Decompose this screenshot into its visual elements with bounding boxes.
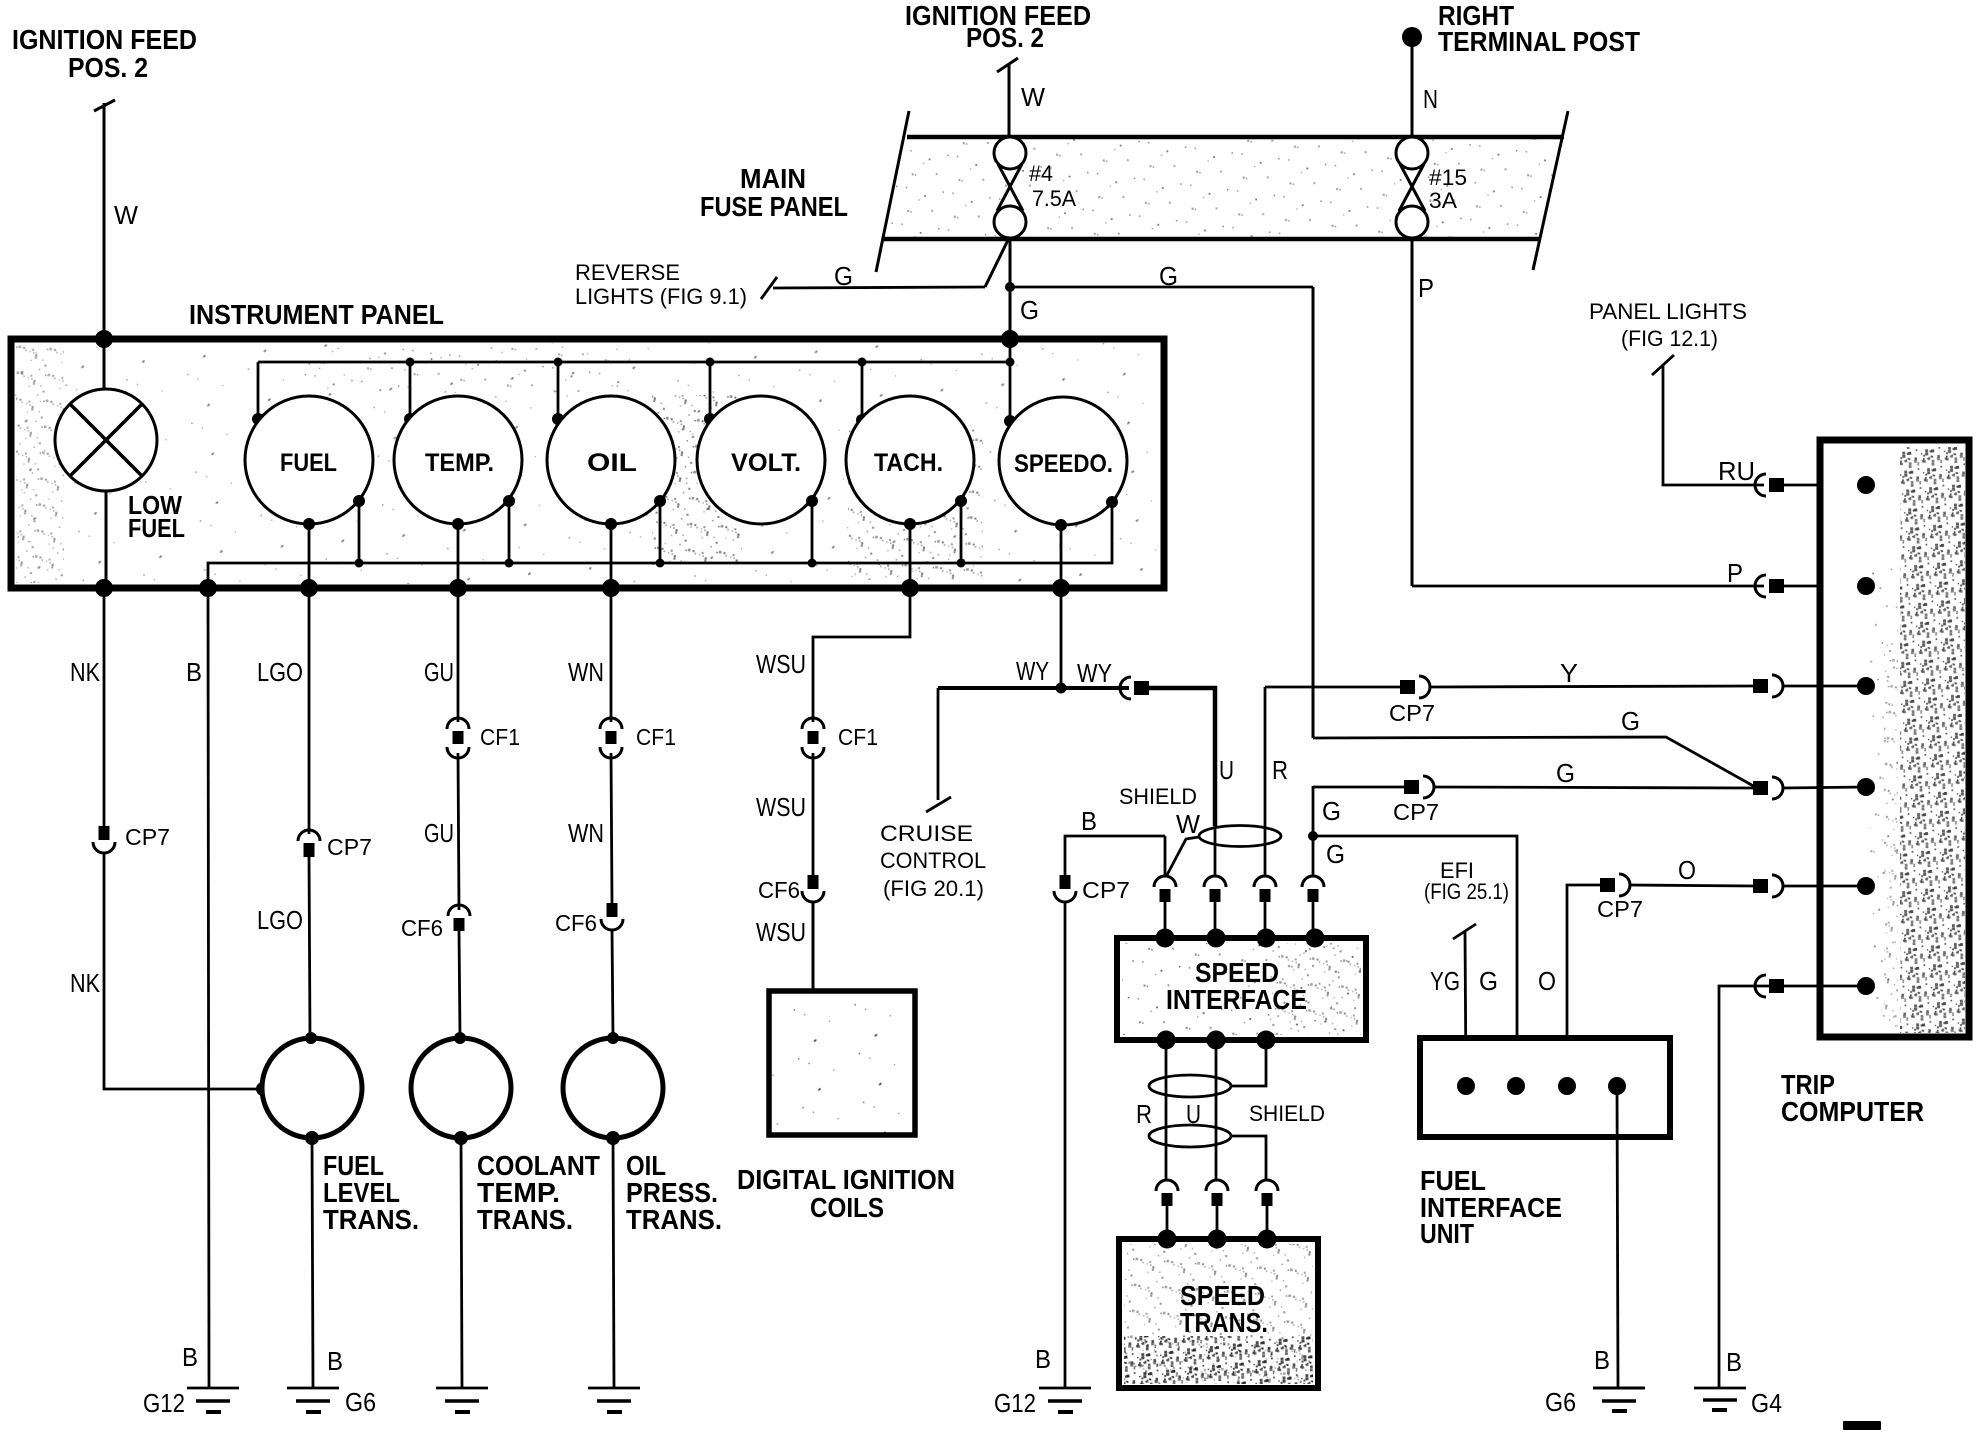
connector G (trip computer) xyxy=(1753,777,1783,799)
svg-text:(FIG 12.1): (FIG 12.1) xyxy=(1621,326,1718,351)
wire inner ground bus xyxy=(208,502,1112,588)
svg-text:TRANS.: TRANS. xyxy=(626,1204,722,1235)
label REVERSE LIGHTS (FIG 9.1) xyxy=(575,260,747,309)
fuse #15 3A xyxy=(1396,137,1467,238)
svg-text:WN: WN xyxy=(568,657,604,687)
main fuse panel band xyxy=(876,111,1568,272)
ground G12 (middle) xyxy=(994,1388,1091,1418)
shield ellipse (middle) xyxy=(1149,1075,1231,1097)
svg-text:3A: 3A xyxy=(1429,188,1457,213)
svg-text:VOLT.: VOLT. xyxy=(731,449,801,477)
wire NK (to fuel level trans) xyxy=(104,853,262,1089)
instrument panel box xyxy=(11,339,1164,588)
wire B drop to pin 1 xyxy=(1164,836,1167,876)
svg-text:CRUISE: CRUISE xyxy=(880,821,973,846)
svg-text:LIGHTS (FIG 9.1): LIGHTS (FIG 9.1) xyxy=(575,284,747,309)
svg-text:FUSE PANEL: FUSE PANEL xyxy=(700,191,848,222)
svg-text:FUEL: FUEL xyxy=(280,449,337,477)
label FUEL LEVEL TRANS. xyxy=(323,1150,419,1235)
svg-text:POS. 2: POS. 2 xyxy=(966,22,1044,53)
svg-text:WSU: WSU xyxy=(756,649,806,679)
connector CP7 on LGO xyxy=(298,830,320,857)
wire G (second segment) xyxy=(1313,786,1404,789)
wire (cruise control branch) xyxy=(937,688,940,800)
svg-text:YG: YG xyxy=(1430,966,1460,996)
svg-text:TACH.: TACH. xyxy=(874,449,943,477)
connector Y (trip computer) xyxy=(1753,675,1783,697)
wire W shield slant xyxy=(1167,837,1199,875)
wire G riser down xyxy=(1312,287,1315,738)
label SPEED TRANS. xyxy=(1180,1280,1268,1338)
terminal post dot xyxy=(1402,27,1422,47)
fuel interface unit box xyxy=(1420,1038,1670,1137)
label TRIP COMPUTER xyxy=(1781,1069,1924,1127)
wire YG (EFI to fuel interface unit) xyxy=(1465,931,1466,1086)
svg-text:#15: #15 xyxy=(1429,165,1467,190)
wire B (panel to ground G12) xyxy=(208,588,209,1387)
svg-text:B: B xyxy=(327,1346,343,1376)
wire U (speed interface to speed trans) xyxy=(1215,1040,1218,1180)
svg-text:W: W xyxy=(1176,809,1200,839)
fuse #4 7.5A xyxy=(994,137,1076,238)
wire shield (pin3 to ellipse) xyxy=(1231,1040,1266,1086)
connector CP7 (on G wire) xyxy=(1404,776,1434,798)
registration dash (bottom right) xyxy=(1843,1421,1881,1430)
connector pin 3 xyxy=(1254,876,1276,938)
wire U (thick, to speed interface) xyxy=(1149,688,1215,826)
speed interface top pins xyxy=(1156,929,1175,948)
svg-text:U: U xyxy=(1219,755,1234,785)
svg-text:N: N xyxy=(1423,84,1438,114)
svg-text:IGNITION FEED: IGNITION FEED xyxy=(12,24,197,55)
wire R/Y horizontal to CP7 xyxy=(1265,686,1400,689)
svg-text:B: B xyxy=(182,1342,198,1372)
wire O (fuel interface to CP7 to trip computer) xyxy=(1567,885,1600,1086)
svg-text:P: P xyxy=(1418,273,1434,303)
gauge TEMP. xyxy=(394,396,522,524)
node WY junction xyxy=(1056,683,1067,694)
wire O (to trip connector) xyxy=(1630,885,1753,886)
svg-text:7.5A: 7.5A xyxy=(1032,186,1076,211)
nodes on panel bottom edge xyxy=(95,579,113,597)
wire RU xyxy=(1663,364,1764,485)
ground G6 (right) xyxy=(1545,1387,1645,1417)
wire R (speed interface to speed trans) xyxy=(1165,1040,1168,1180)
gauge OIL xyxy=(547,396,675,524)
label PANEL LIGHTS (FIG 12.1) xyxy=(1589,299,1747,375)
gauge TACH. xyxy=(846,396,974,524)
svg-text:G6: G6 xyxy=(1545,1387,1576,1417)
svg-text:RU: RU xyxy=(1718,456,1755,486)
wire B (down to ground) xyxy=(1064,902,1067,1387)
svg-text:G: G xyxy=(1621,706,1640,736)
connector CF6 on WN xyxy=(601,903,623,930)
connector WY xyxy=(1120,677,1149,699)
svg-text:OIL: OIL xyxy=(587,449,637,477)
wire shield (ellipse to pin connector) xyxy=(1231,1136,1266,1180)
connector RU (trip computer) xyxy=(1755,474,1784,496)
svg-text:COMPUTER: COMPUTER xyxy=(1781,1096,1924,1127)
nodes on ground bus xyxy=(355,559,364,568)
shield ellipse (upper) xyxy=(1199,826,1281,847)
digital ignition coils box xyxy=(769,991,915,1135)
svg-text:G12: G12 xyxy=(143,1388,185,1418)
connector (speed trans pin 3) xyxy=(1256,1180,1278,1239)
wire WN (to oil press trans) xyxy=(612,930,613,1038)
node W on panel top xyxy=(95,330,113,348)
connector pin 4 xyxy=(1302,876,1324,938)
wire (oil press trans to ground) xyxy=(613,1138,614,1387)
svg-text:TERMINAL POST: TERMINAL POST xyxy=(1438,26,1640,57)
svg-text:(FIG 25.1): (FIG 25.1) xyxy=(1424,879,1509,904)
label DIGITAL IGNITION COILS xyxy=(737,1164,955,1223)
connector O (trip computer) xyxy=(1753,875,1783,897)
svg-text:G: G xyxy=(1326,839,1345,869)
svg-text:SHIELD: SHIELD xyxy=(1119,784,1197,809)
connector (speed trans pin 2) xyxy=(1206,1180,1228,1239)
connector CP7 (on Y wire) xyxy=(1400,676,1430,698)
label IGNITION FEED POS. 2 (top left) xyxy=(12,24,197,111)
svg-text:WSU: WSU xyxy=(756,917,806,947)
wire WSU (tach to coils) xyxy=(813,588,910,722)
svg-text:CF1: CF1 xyxy=(480,724,520,750)
label LOW FUEL xyxy=(128,490,185,543)
bottom-pin nodes on circles xyxy=(303,518,315,530)
nodes on top bus xyxy=(406,358,415,367)
wire LGO (to fuel level trans) xyxy=(309,857,310,1038)
svg-text:B: B xyxy=(1726,1347,1742,1377)
wire WSU middle xyxy=(812,753,815,875)
wire G (corner down to junction) xyxy=(1312,786,1315,876)
svg-text:WY: WY xyxy=(1077,658,1112,688)
svg-text:CF6: CF6 xyxy=(555,910,597,936)
ground (coolant temp) xyxy=(436,1388,488,1412)
node G junction xyxy=(1005,282,1015,292)
node G junction xyxy=(1308,831,1318,841)
svg-text:B: B xyxy=(1594,1345,1610,1375)
svg-text:TEMP.: TEMP. xyxy=(425,449,494,477)
wire G (reverse lights branch slant) xyxy=(985,240,1008,287)
label FUEL INTERFACE UNIT xyxy=(1420,1165,1562,1249)
connector CF1 on WN xyxy=(600,718,622,758)
svg-text:R: R xyxy=(1136,1099,1152,1129)
node fuel level trans left pin xyxy=(256,1082,270,1096)
ground G4 xyxy=(1694,1388,1782,1418)
connector CP7 on B xyxy=(1054,875,1076,902)
ground (oil press) xyxy=(588,1388,640,1412)
svg-text:SPEEDO.: SPEEDO. xyxy=(1014,450,1113,478)
connector CP7 on NK xyxy=(93,826,115,853)
wire GU xyxy=(457,588,460,722)
svg-text:CP7: CP7 xyxy=(125,824,170,850)
label SPEED INTERFACE xyxy=(1166,957,1307,1015)
wire N (terminal post to fuse #15) xyxy=(1411,45,1414,139)
gauge pin nodes (upper-left) xyxy=(252,413,264,425)
label IGNITION FEED POS. 2 (top middle) xyxy=(905,0,1091,72)
svg-text:B: B xyxy=(1081,806,1097,836)
fuel level transducer xyxy=(262,1038,362,1138)
label EFI (FIG 25.1) xyxy=(1424,858,1509,939)
svg-text:G4: G4 xyxy=(1751,1388,1782,1418)
svg-text:CP7: CP7 xyxy=(1082,877,1130,903)
wire B (fuel level trans to ground G6) xyxy=(312,1138,313,1387)
svg-text:CF6: CF6 xyxy=(401,915,443,941)
svg-text:CP7: CP7 xyxy=(327,834,372,860)
speed trans top pins xyxy=(1158,1230,1177,1249)
svg-text:PANEL LIGHTS: PANEL LIGHTS xyxy=(1589,299,1747,324)
label OIL PRESS. TRANS. xyxy=(626,1150,722,1235)
speed interface bottom pins xyxy=(1157,1031,1176,1050)
svg-text:UNIT: UNIT xyxy=(1420,1218,1474,1249)
ground G12 (left) xyxy=(143,1388,239,1418)
svg-text:W: W xyxy=(1021,82,1045,112)
wire WN middle xyxy=(611,753,612,903)
svg-text:(FIG 20.1): (FIG 20.1) xyxy=(883,876,984,901)
connector CP7 (on O wire) xyxy=(1600,874,1630,896)
ground G6 (left) xyxy=(287,1387,376,1417)
svg-text:B: B xyxy=(186,657,202,687)
svg-text:CP7: CP7 xyxy=(1389,700,1435,726)
trip computer pins xyxy=(1857,476,1875,995)
wire GU middle xyxy=(458,753,459,910)
wire WY (speedo down) xyxy=(1060,588,1063,688)
svg-text:WSU: WSU xyxy=(756,792,806,822)
connector pin 1 (speed interface) xyxy=(1154,876,1176,938)
connector P (trip computer) xyxy=(1755,575,1784,597)
connector pin 2 xyxy=(1204,876,1226,938)
wire NK xyxy=(103,588,106,826)
wire top bus inside panel xyxy=(258,339,1010,362)
oil press transducer xyxy=(563,1038,663,1138)
shield ellipse (lower) xyxy=(1149,1125,1231,1147)
wire G (branch to fuel interface unit) xyxy=(1313,836,1517,1086)
svg-text:WN: WN xyxy=(568,818,604,848)
wire WN xyxy=(610,588,613,722)
svg-text:TRANS.: TRANS. xyxy=(323,1204,419,1235)
gauge SPEEDO. xyxy=(999,397,1127,525)
wire G (riser corner to trip computer) xyxy=(1313,737,1757,788)
node G on panel top xyxy=(1001,330,1019,348)
svg-text:FUEL: FUEL xyxy=(128,513,185,543)
svg-text:CP7: CP7 xyxy=(1597,896,1643,922)
svg-text:O: O xyxy=(1538,966,1556,996)
wire WY horizontal xyxy=(938,686,1129,690)
svg-text:CF1: CF1 xyxy=(838,724,878,750)
gauge VOLT. xyxy=(697,396,825,524)
wire B (to CP7 and ground G12) xyxy=(1065,836,1165,875)
svg-text:COILS: COILS xyxy=(810,1192,884,1223)
wire P (fuse #15 down) xyxy=(1411,239,1414,586)
svg-text:W: W xyxy=(114,200,138,230)
svg-text:WY: WY xyxy=(1016,656,1049,686)
svg-text:GU: GU xyxy=(424,818,454,848)
wire W (ignition feed pos.2 to instrument panel) xyxy=(103,103,106,339)
wire gauge right-pin drops xyxy=(358,501,361,563)
label COOLANT TEMP. TRANS. xyxy=(477,1150,600,1235)
wire WSU (to coils box) xyxy=(812,902,815,990)
svg-text:#4: #4 xyxy=(1029,161,1053,186)
speed interface box xyxy=(1117,938,1366,1040)
wire (coolant temp trans to ground) xyxy=(461,1138,462,1387)
svg-text:G6: G6 xyxy=(345,1387,376,1417)
wire B (ground G4 to trip computer) xyxy=(1719,986,1866,1387)
wire G (junction to right riser) xyxy=(1010,286,1313,289)
svg-text:P: P xyxy=(1727,558,1743,588)
svg-text:LGO: LGO xyxy=(257,905,303,935)
wire P (horizontal to trip computer) xyxy=(1412,585,1764,588)
label RIGHT TERMINAL POST xyxy=(1438,0,1640,57)
connector CF1 on GU xyxy=(447,718,469,758)
svg-text:INSTRUMENT PANEL: INSTRUMENT PANEL xyxy=(189,299,444,330)
svg-text:MAIN: MAIN xyxy=(740,163,806,194)
svg-text:G: G xyxy=(1322,796,1341,826)
wire GU (to coolant temp trans) xyxy=(459,931,460,1038)
wire W (to fuse #4) xyxy=(1008,64,1011,139)
svg-text:NK: NK xyxy=(70,657,101,687)
fuel interface unit pins xyxy=(1457,1077,1475,1095)
svg-text:NK: NK xyxy=(70,968,101,998)
wire B (fuel interface to ground G6) xyxy=(1617,1086,1618,1387)
label MAIN FUSE PANEL xyxy=(700,163,848,222)
svg-text:G: G xyxy=(1159,261,1178,291)
wire G (fuse #4 to instrument panel) xyxy=(1009,238,1012,339)
svg-text:Y: Y xyxy=(1560,658,1578,688)
svg-text:G12: G12 xyxy=(994,1388,1036,1418)
connector CF1 on WSU xyxy=(802,718,824,758)
speed trans box xyxy=(1119,1239,1318,1388)
coolant temp transducer xyxy=(411,1038,511,1138)
svg-text:G: G xyxy=(1479,966,1498,996)
wire R (vertical) xyxy=(1264,687,1267,876)
connector CF6 on GU xyxy=(448,905,470,931)
wire LGO xyxy=(308,588,311,834)
svg-text:DIGITAL IGNITION: DIGITAL IGNITION xyxy=(737,1164,955,1195)
svg-text:G: G xyxy=(1020,295,1039,325)
svg-text:INTERFACE: INTERFACE xyxy=(1166,984,1307,1015)
gauge FUEL xyxy=(245,396,373,524)
trip computer box xyxy=(1820,440,1969,1037)
svg-text:TRANS.: TRANS. xyxy=(477,1204,573,1235)
wire G (CP7 to trip computer) xyxy=(1434,787,1753,788)
svg-text:SHIELD: SHIELD xyxy=(1249,1101,1325,1126)
svg-text:G: G xyxy=(1556,758,1575,788)
svg-text:CP7: CP7 xyxy=(1393,799,1439,825)
wire (reverse lights horizontal) xyxy=(773,287,985,288)
connector B (trip computer, bottom) xyxy=(1755,975,1784,997)
right-pin nodes on circles xyxy=(353,495,365,507)
label CRUISE CONTROL (FIG 20.1) xyxy=(880,821,986,901)
svg-text:GU: GU xyxy=(424,657,454,687)
svg-text:R: R xyxy=(1272,755,1288,785)
wire Y (to trip computer) xyxy=(1430,686,1753,687)
wire gauge bottom drops to panel edge xyxy=(308,524,311,588)
svg-text:CF6: CF6 xyxy=(758,877,800,903)
svg-text:TRANS.: TRANS. xyxy=(1180,1307,1268,1338)
wire drops from top bus to gauges xyxy=(257,362,260,419)
svg-text:LGO: LGO xyxy=(257,657,303,687)
svg-text:CONTROL: CONTROL xyxy=(880,848,986,873)
svg-text:REVERSE: REVERSE xyxy=(575,260,680,285)
connector (speed trans pin 1) xyxy=(1156,1180,1178,1239)
connector CF6 on WSU xyxy=(802,875,824,902)
svg-text:CF1: CF1 xyxy=(636,724,676,750)
svg-text:O: O xyxy=(1678,855,1696,885)
svg-text:POS. 2: POS. 2 xyxy=(68,52,148,83)
lamp LOW FUEL xyxy=(55,339,157,588)
svg-text:B: B xyxy=(1035,1344,1051,1374)
